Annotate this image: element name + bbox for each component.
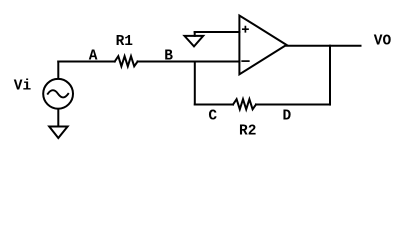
svg-text:D: D	[283, 109, 292, 125]
wire source bottom stub	[57, 109, 59, 127]
op-amp plus sign	[243, 27, 248, 32]
wire feedback D segment	[256, 104, 330, 106]
wire feedback C segment	[195, 104, 233, 106]
wire non-inverting input	[195, 31, 240, 33]
resistor R1	[115, 56, 138, 66]
wire source top vertical	[57, 62, 59, 79]
svg-text:R1: R1	[116, 34, 134, 50]
svg-text:R2: R2	[239, 124, 256, 140]
ground (op-amp non-inverting input)	[185, 36, 204, 47]
svg-text:C: C	[208, 109, 217, 125]
op-amp U1	[239, 16, 286, 75]
wire B segment	[138, 61, 240, 63]
svg-text:Vi: Vi	[14, 79, 32, 95]
op-amp minus sign	[242, 60, 249, 62]
ground (below source)	[49, 127, 67, 139]
voltage source Vi	[43, 79, 73, 109]
wire main horizontal A segment	[58, 61, 114, 63]
svg-text:B: B	[164, 48, 173, 64]
resistor R2	[233, 99, 256, 109]
svg-text:A: A	[89, 48, 98, 64]
ground stub at op-amp	[194, 32, 196, 36]
svg-text:VO: VO	[374, 34, 392, 50]
wire right vertical up to output	[329, 46, 331, 105]
sine wave inside source	[48, 90, 68, 97]
wire op-amp output to V0	[287, 45, 361, 47]
wire node B vertical down to C	[194, 62, 196, 105]
